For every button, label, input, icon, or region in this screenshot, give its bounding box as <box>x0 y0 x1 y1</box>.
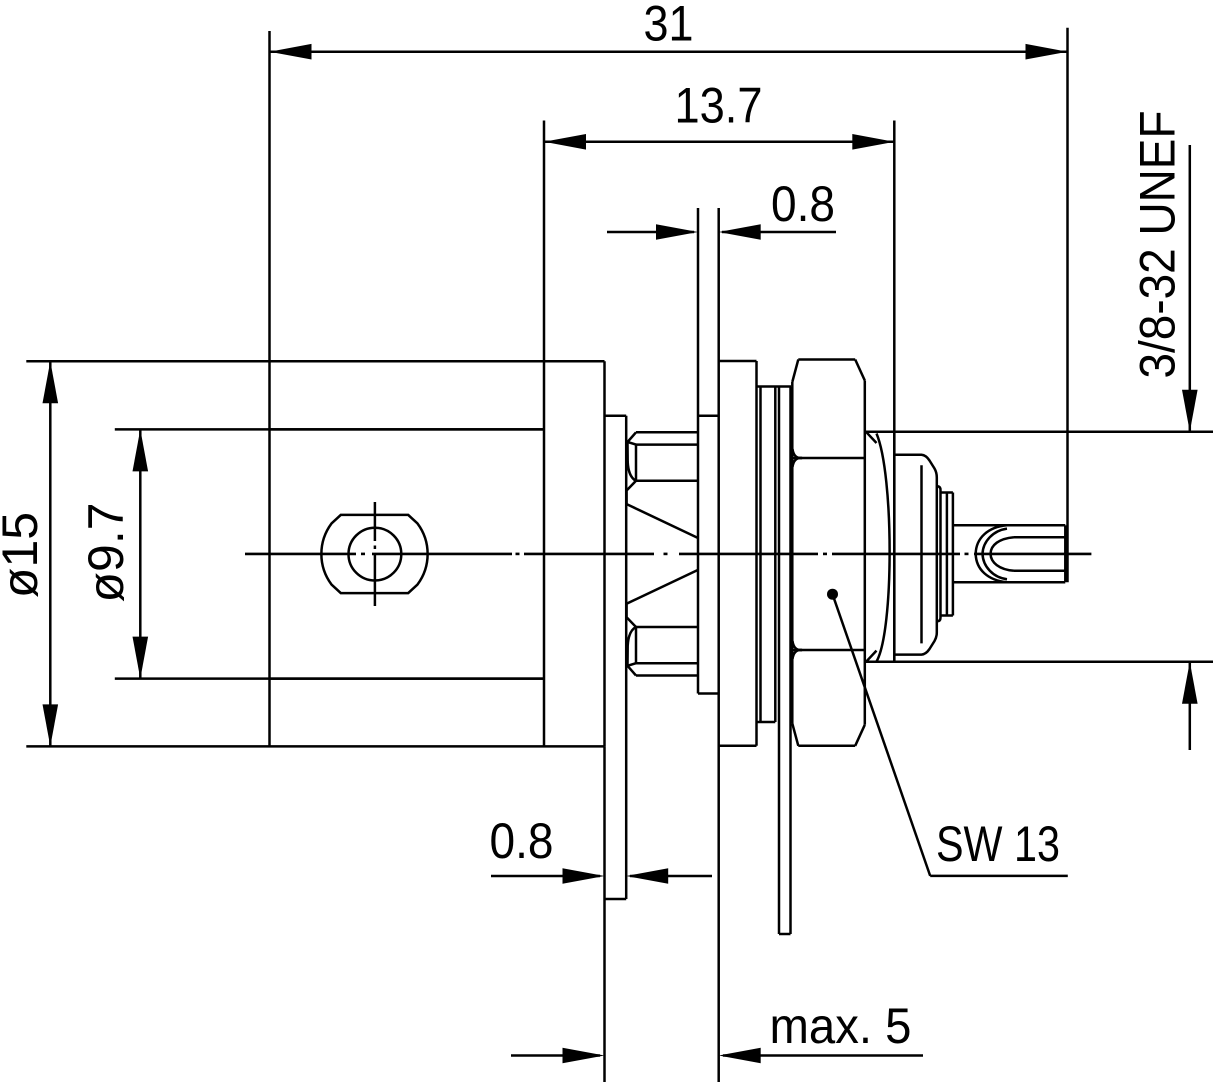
lock washer stack <box>757 387 792 723</box>
solder tag plate 2 (long) <box>779 387 791 934</box>
front cylinder step <box>937 486 941 621</box>
front thread 3/8-32 <box>865 432 1213 663</box>
dimension dia 9.7 <box>78 429 544 678</box>
washer behind panel <box>719 361 757 746</box>
front bushing <box>894 455 937 655</box>
dimension 31 <box>270 0 1068 582</box>
dimension 3/8-32 UNEF <box>1130 111 1198 751</box>
connector body (rear block) <box>270 361 605 746</box>
svg-text:ø15: ø15 <box>0 512 48 598</box>
solder tag plate 1 (0.8 thick) <box>605 416 627 1082</box>
svg-text:0.8: 0.8 <box>490 813 554 869</box>
mounting panel (0.8) <box>698 208 719 1082</box>
svg-text:31: 31 <box>644 0 694 52</box>
dimension dia 15 <box>0 361 270 746</box>
svg-text:max. 5: max. 5 <box>770 998 912 1054</box>
centerline <box>245 553 1091 556</box>
svg-text:0.8: 0.8 <box>771 176 835 232</box>
dimension max. 5 <box>511 998 923 1063</box>
dimension 0.8 top (panel thickness) <box>607 176 836 240</box>
thin front washer <box>941 493 953 616</box>
rear hex nut <box>627 432 698 675</box>
hex cable hole in body <box>321 502 427 606</box>
svg-text:SW 13: SW 13 <box>936 816 1060 872</box>
center contact pin with fork <box>953 525 1065 582</box>
hex nut SW13 <box>792 360 865 746</box>
leader SW 13 <box>827 589 1068 876</box>
svg-text:3/8-32 UNEF: 3/8-32 UNEF <box>1130 111 1186 379</box>
dimension 0.8 bottom (tag thickness) <box>490 813 713 884</box>
svg-text:ø9.7: ø9.7 <box>78 502 134 602</box>
svg-text:13.7: 13.7 <box>675 78 763 134</box>
dimension 13.7 <box>544 78 894 664</box>
